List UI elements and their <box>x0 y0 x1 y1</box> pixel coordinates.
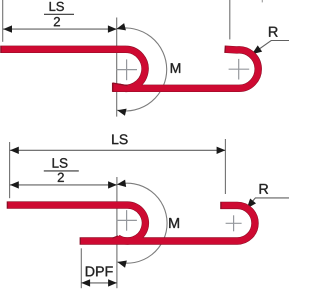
label LS (numerator) <box>53 158 68 168</box>
sheet profile (dark outline layer) <box>0 49 258 88</box>
fraction bar <box>44 170 79 172</box>
hem junction ramp edge <box>112 236 118 238</box>
extension line at bend (x=116.9) <box>116 177 118 288</box>
extension line right (x=229.8, cropped dimension) <box>229 0 231 39</box>
arrowhead LS/2 left <box>10 181 19 188</box>
arrowhead M arc bottom <box>117 258 127 267</box>
hem junction fill (left bend, flattened flap) <box>113 83 127 91</box>
arrowhead M arc top <box>116 23 126 32</box>
hem junction left face <box>112 83 114 92</box>
label R <box>260 184 268 194</box>
label LS (long dimension) <box>112 134 127 144</box>
arrowhead M arc top <box>116 180 126 189</box>
arrowhead LS/2 left <box>3 25 12 32</box>
arrowhead DPF left <box>81 279 90 286</box>
label 2 (denominator) <box>54 17 60 26</box>
R leader line <box>253 41 289 54</box>
sheet profile (red layer) <box>2 49 259 88</box>
label DPF <box>86 266 113 276</box>
crosshair right bend center <box>226 215 242 231</box>
M angle arc <box>117 183 167 263</box>
M angle arc <box>117 28 167 111</box>
extension line left (x=3) <box>2 0 4 42</box>
label M <box>171 63 180 73</box>
arrowhead R leader <box>244 198 256 211</box>
crosshair right bend center <box>229 59 250 80</box>
arrowhead LS right <box>217 147 226 154</box>
DPF extension line left (x=81.3) <box>80 248 82 288</box>
arrowhead LS left <box>10 147 19 154</box>
sheet profile (dark outline layer) <box>7 205 255 241</box>
label LS (numerator) <box>50 2 64 11</box>
crosshair left bend center <box>117 59 138 80</box>
hem junction ramp (left bend, bottom diagram) <box>113 236 121 241</box>
arrowhead LS/2 right <box>108 25 117 32</box>
dimension line LS/2 <box>3 28 117 30</box>
extension line at bend (x=116.7) <box>116 18 118 117</box>
crosshair left bend center <box>116 210 137 231</box>
extension line right (x=225.4) <box>224 139 226 194</box>
extension line left (x=3) <box>9 142 11 198</box>
hem junction top edge <box>113 83 128 86</box>
fraction bar <box>44 13 74 15</box>
tick mark top edge (cropped element) <box>261 0 263 2</box>
label M <box>169 218 179 228</box>
label R <box>269 27 278 37</box>
arrowhead M arc bottom <box>116 107 126 116</box>
arrowhead R leader <box>250 45 263 57</box>
R leader line <box>248 198 289 207</box>
sheet profile (red layer) <box>8 205 255 241</box>
dimension line DPF <box>81 282 117 284</box>
dimension line LS <box>10 149 226 151</box>
dimension line LS/2 <box>10 184 117 186</box>
label 2 (denominator) <box>58 173 64 182</box>
arrowhead LS/2 right <box>108 181 117 188</box>
arrowhead DPF right <box>108 279 117 286</box>
